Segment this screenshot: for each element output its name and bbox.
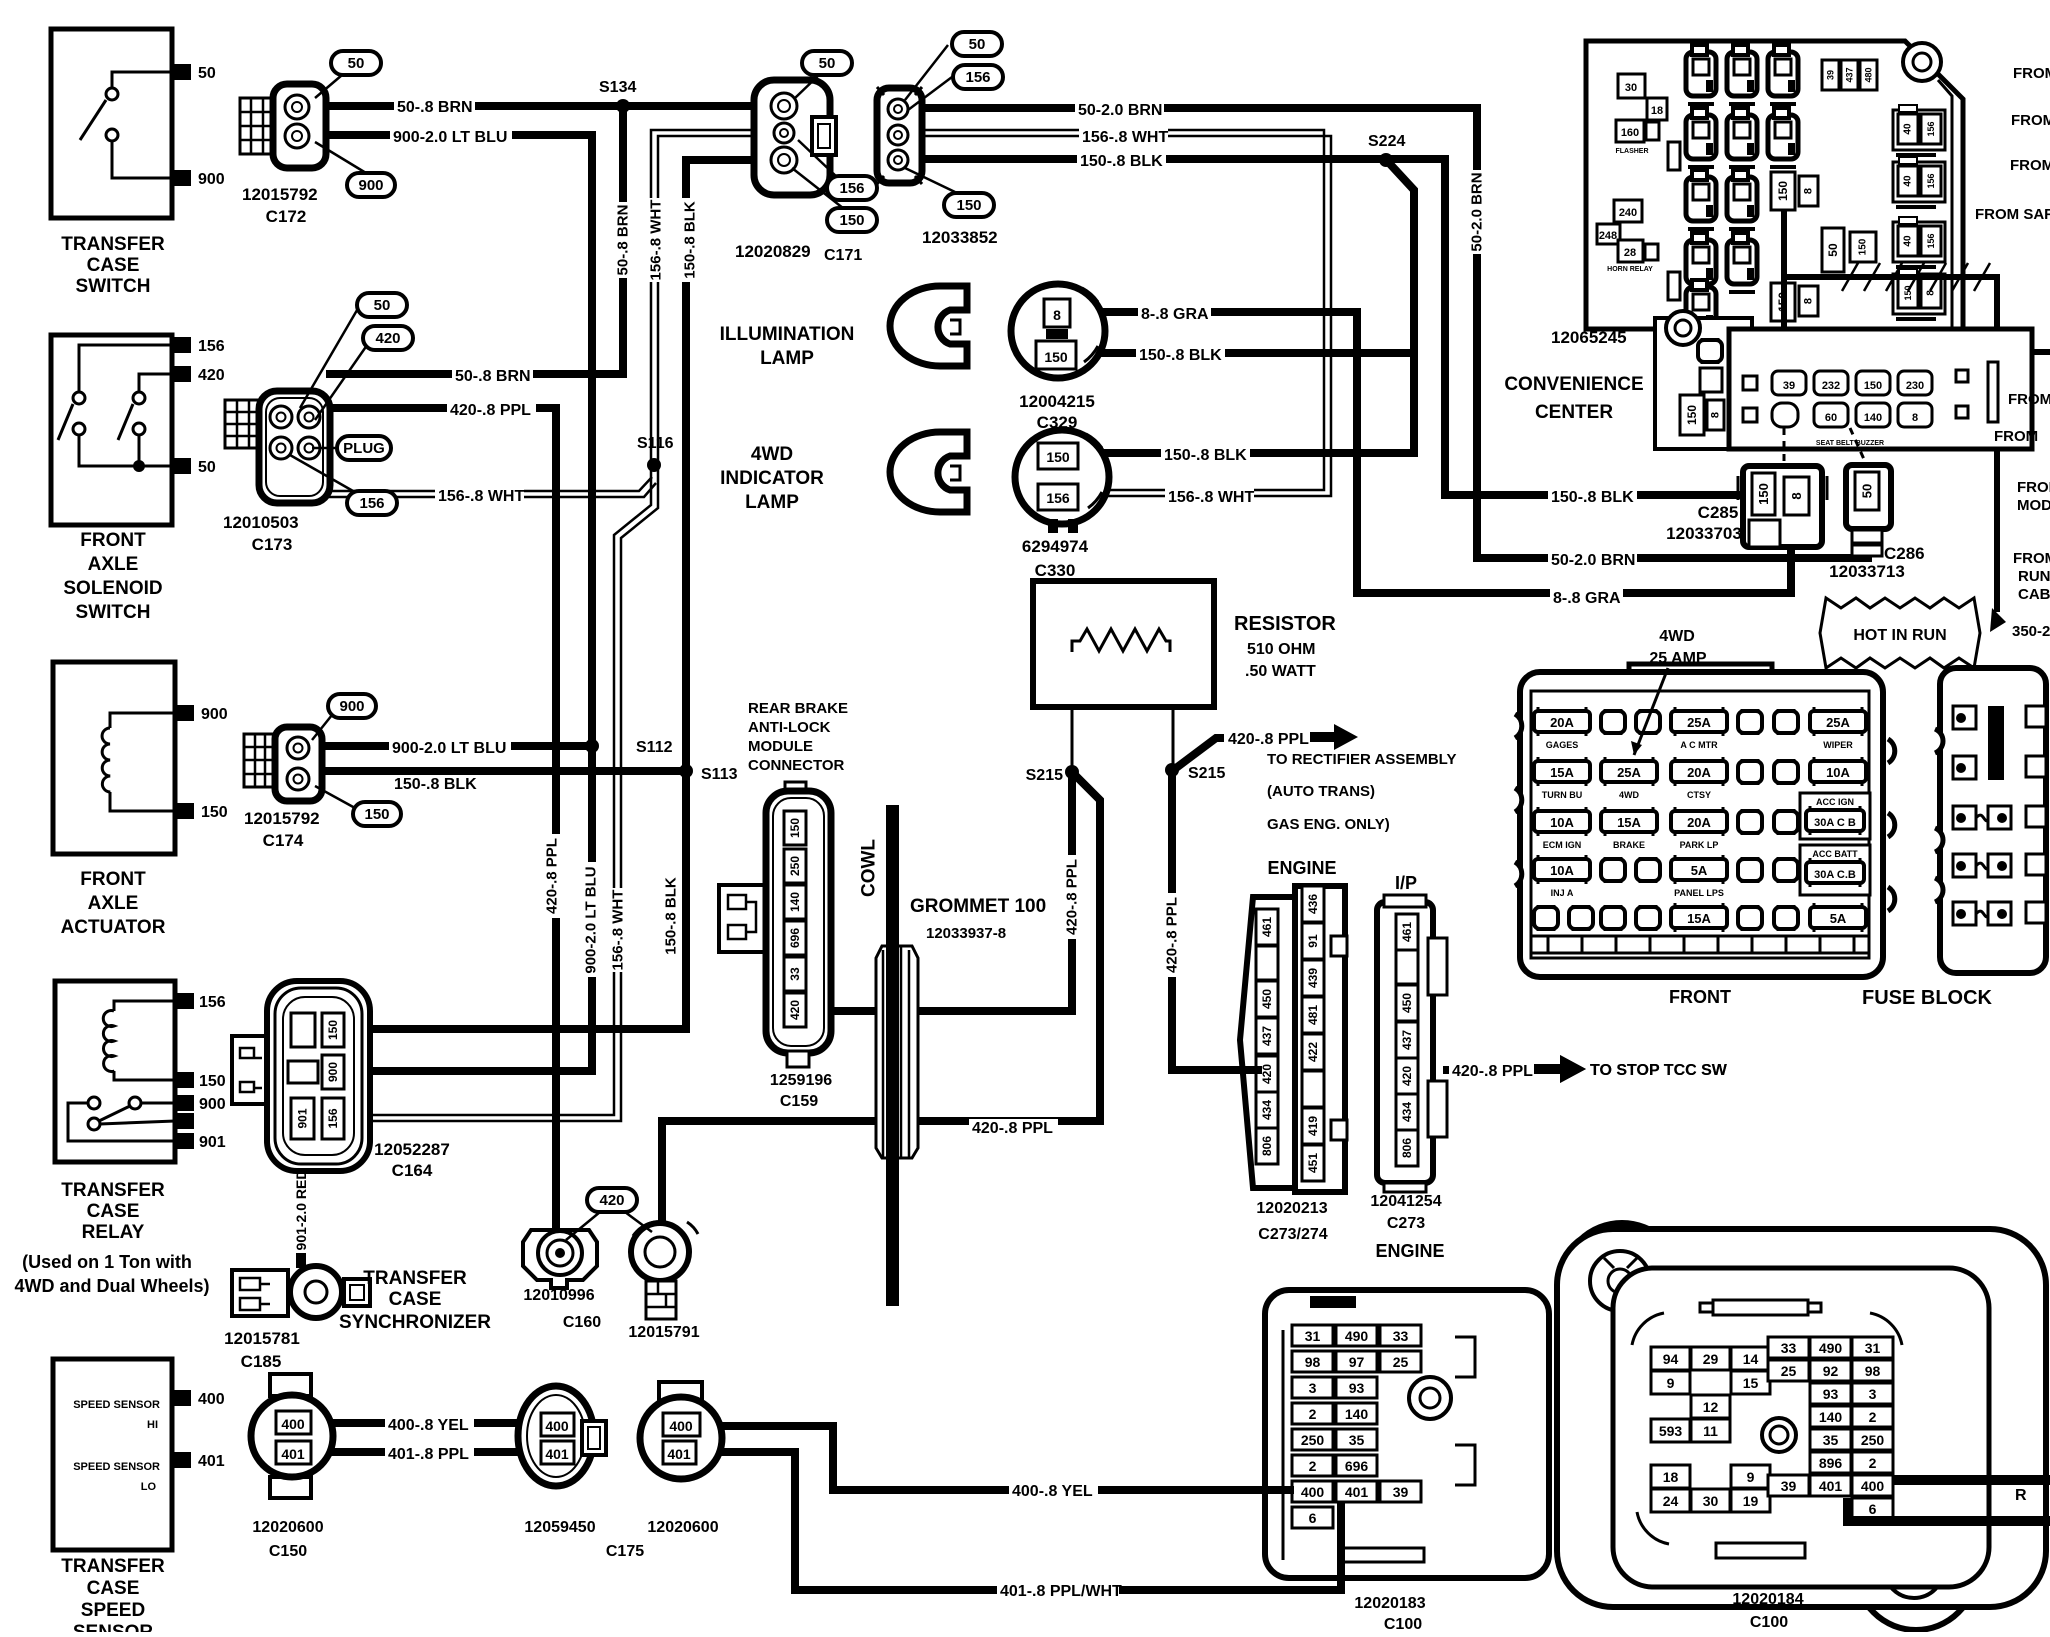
pin 437 — [1841, 60, 1858, 90]
wire 400 into I/P C100 — [1893, 1475, 2050, 1485]
pin 156 — [1921, 166, 1941, 196]
fuse block side connector (right) — [1940, 668, 2046, 973]
pin cell 33 — [1768, 1337, 1809, 1358]
pin cell 94 — [1651, 1347, 1690, 1370]
pin cell 896 — [1810, 1452, 1851, 1473]
pin 8 — [1799, 286, 1818, 316]
svg-text:437: 437 — [1400, 1030, 1414, 1050]
svg-text:900: 900 — [199, 1096, 226, 1113]
svg-text:A C MTR: A C MTR — [1680, 740, 1718, 750]
svg-text:5A: 5A — [1830, 911, 1847, 926]
wire label 50-2.0 BRN (vertical) — [1468, 170, 1485, 254]
circuit tag oval 150 — [944, 193, 994, 217]
circuit tag oval 156 — [953, 65, 1003, 89]
wire 401-.8 PPL/WHT to ENGINE C100 — [694, 1452, 1341, 1590]
resistor 510 ohm — [1033, 581, 1214, 707]
wire 420-.8 PPL S215 right branch — [1172, 775, 1258, 1070]
svg-text:451: 451 — [1306, 1153, 1320, 1173]
svg-text:18: 18 — [1651, 105, 1663, 117]
terminal 156 — [172, 337, 191, 353]
pin 140 — [784, 885, 806, 919]
svg-text:15: 15 — [1743, 1375, 1759, 1391]
pin 150 — [322, 1013, 344, 1047]
svg-text:C164: C164 — [392, 1161, 433, 1180]
svg-text:SYNCHRONIZER: SYNCHRONIZER — [339, 1312, 491, 1333]
svg-text:250: 250 — [788, 856, 802, 876]
svg-text:TO STOP TCC SW: TO STOP TCC SW — [1590, 1062, 1728, 1079]
svg-text:400: 400 — [198, 1391, 225, 1408]
svg-text:401: 401 — [281, 1446, 305, 1462]
ip mount keyhole bottom — [1884, 1538, 1944, 1598]
svg-text:PARK LP: PARK LP — [1680, 840, 1719, 850]
svg-text:156: 156 — [965, 69, 990, 86]
svg-text:31: 31 — [1865, 1340, 1881, 1356]
circuit tag oval 420 — [587, 1188, 637, 1212]
svg-text:MOD: MOD — [2017, 497, 2050, 514]
wire label 150-.8 BLK (vertical) — [662, 874, 679, 958]
circuit tag oval 156 — [347, 491, 397, 515]
pin cell 140 — [1810, 1406, 1851, 1427]
svg-text:156: 156 — [1926, 233, 1936, 248]
convenience center bus wire to 350 circuit — [1781, 209, 1787, 338]
svg-text:900-2.0 LT BLU: 900-2.0 LT BLU — [393, 129, 507, 146]
svg-text:896: 896 — [1819, 1455, 1843, 1471]
svg-text:FROM: FROM — [2011, 112, 2050, 129]
svg-text:12010996: 12010996 — [523, 1287, 594, 1304]
pin 439 — [1302, 960, 1324, 996]
pin cell 696 — [1336, 1455, 1377, 1476]
svg-text:461: 461 — [1260, 917, 1274, 937]
svg-text:401: 401 — [1345, 1484, 1369, 1500]
wire label 420-.8 PPL — [1225, 730, 1314, 748]
wire 420 into engine strip — [1240, 1066, 1262, 1074]
svg-text:436: 436 — [1306, 894, 1320, 914]
pin cell 3 — [1852, 1383, 1893, 1404]
pin 450 — [1256, 981, 1278, 1017]
connector 12015791 — [631, 1223, 689, 1281]
svg-text:CASE: CASE — [87, 255, 140, 276]
svg-text:2: 2 — [1309, 1406, 1317, 1422]
svg-text:232: 232 — [1822, 380, 1840, 392]
svg-text:50: 50 — [1826, 243, 1840, 257]
node S224 — [1379, 153, 1393, 167]
connector 12059450 — [518, 1386, 594, 1486]
svg-text:SOLENOID: SOLENOID — [63, 578, 162, 599]
svg-text:28: 28 — [1624, 247, 1636, 259]
svg-text:10A: 10A — [1826, 765, 1850, 780]
pin cell 490 — [1336, 1325, 1377, 1346]
svg-text:150: 150 — [1903, 285, 1913, 300]
svg-text:806: 806 — [1400, 1138, 1414, 1158]
svg-text:12020213: 12020213 — [1256, 1200, 1327, 1217]
pin 39 — [1822, 60, 1839, 90]
circuit tag oval PLUG — [337, 436, 391, 460]
svg-text:400: 400 — [281, 1416, 305, 1432]
wire label 400-.8 YEL — [385, 1416, 474, 1434]
svg-text:419: 419 — [1306, 1116, 1320, 1136]
svg-text:SPEED: SPEED — [81, 1600, 145, 1621]
wire label 420-.8 PPL (vertical) — [1064, 855, 1081, 939]
svg-text:696: 696 — [1345, 1458, 1369, 1474]
svg-text:420-.8 PPL: 420-.8 PPL — [450, 402, 531, 419]
svg-text:25: 25 — [1393, 1354, 1409, 1370]
pin cell 24 — [1651, 1489, 1690, 1512]
pin cell 400 — [1292, 1481, 1333, 1502]
pin cell 18 — [1651, 1465, 1690, 1488]
svg-text:8: 8 — [1789, 492, 1804, 499]
wire label 8-.8 GRA — [1550, 589, 1623, 607]
svg-text:450: 450 — [1400, 993, 1414, 1013]
wire label 900-2.0 LT BLU — [390, 128, 512, 146]
svg-text:GAS ENG. ONLY): GAS ENG. ONLY) — [1267, 816, 1390, 833]
svg-text:C330: C330 — [1035, 561, 1076, 580]
svg-text:150: 150 — [956, 197, 981, 214]
svg-text:FUSE BLOCK: FUSE BLOCK — [1862, 987, 1993, 1009]
svg-text:8: 8 — [1803, 188, 1815, 194]
svg-text:490: 490 — [1819, 1340, 1843, 1356]
wire 401-.8 PPL — [310, 1448, 545, 1456]
pin 436 — [1302, 886, 1324, 922]
pin cell 35 — [1810, 1429, 1851, 1450]
svg-text:RESISTOR: RESISTOR — [1234, 613, 1336, 635]
hot in run starburst — [1820, 598, 1980, 668]
svg-text:S112: S112 — [636, 739, 673, 756]
pin 437 — [1256, 1018, 1278, 1054]
svg-text:R: R — [2015, 1487, 2027, 1504]
svg-text:C159: C159 — [780, 1093, 818, 1110]
pin 150 — [1752, 473, 1775, 515]
lamp socket C330 6294974 — [1015, 430, 1109, 524]
svg-text:150: 150 — [1685, 405, 1699, 425]
svg-text:150: 150 — [1776, 181, 1790, 201]
wire label 150-.8 BLK — [1161, 446, 1250, 464]
svg-text:14: 14 — [1743, 1351, 1759, 1367]
pin cell 25 — [1768, 1360, 1809, 1381]
svg-text:806: 806 — [1260, 1136, 1274, 1156]
svg-text:SWITCH: SWITCH — [76, 602, 151, 623]
svg-text:4WD: 4WD — [1619, 790, 1640, 800]
circuit tag oval 150 — [353, 802, 401, 826]
svg-text:900-2.0 LT BLU: 900-2.0 LT BLU — [392, 740, 506, 757]
svg-text:AXLE: AXLE — [88, 893, 139, 914]
wire label 900-2.0 LT BLU (vertical) — [582, 862, 599, 977]
circuit tag oval 150 — [827, 208, 877, 232]
arrow to rectifier assembly — [1310, 724, 1358, 750]
svg-text:12059450: 12059450 — [524, 1519, 595, 1536]
svg-text:50: 50 — [374, 297, 391, 314]
svg-text:401: 401 — [1819, 1478, 1843, 1494]
svg-text:400-.8 YEL: 400-.8 YEL — [1012, 1483, 1093, 1500]
svg-text:S224: S224 — [1368, 133, 1405, 150]
pin 451 — [1302, 1145, 1324, 1181]
svg-text:92: 92 — [1823, 1363, 1839, 1379]
svg-text:400-.8 YEL: 400-.8 YEL — [388, 1417, 469, 1434]
svg-text:CASE: CASE — [87, 1201, 140, 1222]
terminal 401 — [172, 1452, 191, 1468]
svg-text:30A C.B: 30A C.B — [1814, 869, 1856, 881]
svg-text:12020183: 12020183 — [1354, 1595, 1425, 1612]
svg-text:30: 30 — [1703, 1493, 1719, 1509]
wire label 150-.8 BLK — [391, 775, 480, 793]
svg-text:LAMP: LAMP — [745, 492, 799, 513]
svg-text:SPEED SENSOR: SPEED SENSOR — [73, 1399, 160, 1411]
svg-text:450: 450 — [1260, 989, 1274, 1009]
svg-text:12065245: 12065245 — [1551, 328, 1627, 347]
pin 8 — [1784, 477, 1809, 515]
pin 8 — [1799, 176, 1818, 206]
svg-text:140: 140 — [788, 892, 802, 912]
svg-text:150: 150 — [199, 1073, 226, 1090]
svg-text:20A: 20A — [1550, 715, 1574, 730]
svg-text:12020600: 12020600 — [647, 1519, 718, 1536]
svg-text:10A: 10A — [1550, 815, 1574, 830]
pin 150 — [1771, 172, 1795, 210]
pin 40 — [1898, 166, 1918, 196]
svg-text:(Used on 1 Ton with: (Used on 1 Ton with — [22, 1252, 192, 1272]
pin cell 12 — [1691, 1395, 1730, 1418]
oval tag 420 synchronizer — [566, 1212, 652, 1240]
svg-text:98: 98 — [1305, 1354, 1321, 1370]
svg-text:400: 400 — [545, 1418, 569, 1434]
svg-text:11: 11 — [1703, 1423, 1718, 1439]
pin cell 39 — [1768, 1475, 1809, 1496]
ip top tab — [1713, 1300, 1808, 1315]
12065245 bracket — [1655, 318, 1752, 449]
circuit tag oval 50 — [357, 293, 407, 317]
pin cell 98 — [1292, 1351, 1333, 1372]
svg-text:437: 437 — [1260, 1026, 1274, 1046]
wire 400-.8 YEL to ENGINE C100 — [698, 1426, 1292, 1490]
circuit tag oval 156 — [827, 176, 877, 200]
svg-text:401: 401 — [667, 1446, 691, 1462]
pin cell 9 — [1731, 1465, 1770, 1488]
svg-text:420-.8 PPL: 420-.8 PPL — [1064, 859, 1081, 935]
wire 150-.8 BLK C329 — [1076, 349, 1414, 357]
svg-text:93: 93 — [1349, 1380, 1365, 1396]
svg-text:35: 35 — [1349, 1432, 1365, 1448]
svg-text:8-.8 GRA: 8-.8 GRA — [1553, 590, 1621, 607]
svg-text:C173: C173 — [252, 535, 293, 554]
svg-text:SWITCH: SWITCH — [76, 276, 151, 297]
svg-text:ENGINE: ENGINE — [1267, 858, 1336, 878]
svg-text:33: 33 — [1781, 1340, 1797, 1356]
wire label 420-.8 PPL — [447, 401, 536, 419]
circuit tag oval 900 — [347, 173, 395, 197]
svg-text:C160: C160 — [563, 1314, 601, 1331]
svg-text:901-2.0 RED: 901-2.0 RED — [293, 1170, 309, 1251]
wire label 50-.8 BRN (vertical) — [614, 202, 631, 278]
svg-text:901: 901 — [199, 1134, 226, 1151]
wire label 401-.8 PPL — [385, 1445, 474, 1463]
terminal 150 — [175, 1072, 194, 1088]
circuit tag oval 420 — [363, 326, 413, 350]
svg-text:140: 140 — [1819, 1409, 1843, 1425]
svg-text:156-.8 WHT: 156-.8 WHT — [438, 488, 524, 505]
connector C173 12010503 — [225, 400, 261, 448]
convenience center screw — [1903, 43, 1941, 81]
svg-text:S134: S134 — [599, 79, 636, 96]
svg-text:20A: 20A — [1687, 815, 1711, 830]
svg-text:420: 420 — [198, 367, 225, 384]
pin 481 — [1302, 997, 1324, 1033]
pin 806 — [1256, 1128, 1278, 1164]
pin cell 2 — [1292, 1403, 1333, 1424]
svg-text:TRANSFER: TRANSFER — [61, 234, 165, 255]
svg-text:LAMP: LAMP — [760, 348, 814, 369]
svg-text:4WD: 4WD — [751, 444, 793, 465]
svg-text:3: 3 — [1869, 1386, 1877, 1402]
terminal 901 — [175, 1133, 194, 1149]
wire label 50-.8 BRN — [394, 98, 475, 116]
pin 8 — [1707, 400, 1724, 430]
svg-text:8: 8 — [1710, 412, 1722, 418]
svg-text:HOT IN RUN: HOT IN RUN — [1853, 627, 1946, 644]
svg-text:401: 401 — [198, 1453, 225, 1470]
svg-text:60: 60 — [1825, 412, 1837, 424]
wire 420 out of ip strip to stop tcc — [1443, 1066, 1540, 1074]
svg-text:900: 900 — [326, 1062, 340, 1082]
svg-text:C171: C171 — [824, 247, 862, 264]
pin cell 92 — [1810, 1360, 1851, 1381]
circuit tag oval 50 — [331, 51, 381, 75]
svg-text:420-.8 PPL: 420-.8 PPL — [1164, 897, 1181, 973]
wire 50-.8 BRN — [313, 102, 770, 110]
pin cell 35 — [1336, 1429, 1377, 1450]
pin 50 — [1855, 472, 1879, 510]
pin 420 — [784, 993, 806, 1027]
svg-text:156: 156 — [1046, 490, 1070, 506]
pin 150 — [1850, 232, 1876, 262]
connector C150 12020600 — [270, 1374, 311, 1396]
pin cell 2 — [1852, 1452, 1893, 1473]
node S215 left — [1065, 765, 1079, 779]
svg-text:420-.8 PPL: 420-.8 PPL — [1452, 1063, 1533, 1080]
wire label 156-.8 WHT (vertical) — [648, 198, 665, 282]
svg-text:12020184: 12020184 — [1732, 1591, 1803, 1608]
svg-text:40: 40 — [1903, 235, 1914, 247]
pin 437 — [1396, 1022, 1418, 1058]
svg-text:434: 434 — [1260, 1100, 1274, 1120]
svg-text:12033713: 12033713 — [1829, 562, 1905, 581]
svg-text:12015781: 12015781 — [224, 1329, 300, 1348]
node S113 — [679, 764, 693, 778]
svg-text:150: 150 — [1046, 449, 1070, 465]
wire 901-2.0 RED — [296, 1135, 306, 1268]
svg-text:93: 93 — [1823, 1386, 1839, 1402]
svg-text:C273/274: C273/274 — [1258, 1226, 1327, 1243]
svg-text:C100: C100 — [1750, 1614, 1788, 1631]
svg-text:50-2.0 BRN: 50-2.0 BRN — [1469, 172, 1486, 251]
wire label 156-.8 WHT (vertical) — [610, 888, 627, 972]
wire 400 into I/P C100 — [1892, 1475, 2050, 1485]
svg-text:CAB: CAB — [2018, 586, 2050, 603]
wire label 401-.8 PPL/WHT — [997, 1582, 1119, 1600]
svg-text:SEAT BELT BUZZER: SEAT BELT BUZZER — [1816, 440, 1884, 447]
svg-text:S116: S116 — [637, 435, 674, 452]
pin cell 140 — [1336, 1403, 1377, 1424]
front axle actuator box — [53, 662, 175, 854]
svg-text:12: 12 — [1703, 1399, 1719, 1415]
wire label 156-.8 WHT — [1165, 488, 1254, 506]
svg-text:.50 WATT: .50 WATT — [1245, 663, 1316, 680]
pin 696 — [784, 921, 806, 955]
connector C286 12033713 — [1846, 465, 1891, 529]
pin cell 14 — [1731, 1347, 1770, 1370]
wire 156-.8 WHT right — [918, 130, 1324, 490]
svg-text:S215: S215 — [1026, 767, 1063, 784]
pin 40 — [1898, 226, 1918, 256]
pin 156 — [1921, 226, 1941, 256]
terminal 150 — [175, 803, 194, 819]
svg-text:6294974: 6294974 — [1022, 537, 1089, 556]
svg-text:4WD: 4WD — [1659, 628, 1695, 645]
svg-text:150-.8 BLK: 150-.8 BLK — [682, 201, 699, 279]
svg-text:39: 39 — [1781, 1478, 1797, 1494]
svg-text:AXLE: AXLE — [88, 554, 139, 575]
svg-text:150: 150 — [1858, 238, 1869, 255]
svg-text:150-.8 BLK: 150-.8 BLK — [1551, 489, 1634, 506]
svg-text:ECM IGN: ECM IGN — [1543, 840, 1582, 850]
svg-text:439: 439 — [1306, 968, 1320, 988]
svg-text:C150: C150 — [269, 1543, 307, 1560]
svg-text:COWL: COWL — [859, 839, 880, 897]
pin cell 6 — [1292, 1507, 1333, 1528]
convenience center outer box — [1586, 41, 1963, 329]
svg-text:12041254: 12041254 — [1370, 1193, 1441, 1210]
svg-text:97: 97 — [1349, 1354, 1365, 1370]
wire label 8-.8 GRA — [1138, 305, 1211, 323]
svg-text:25 AMP: 25 AMP — [1649, 650, 1707, 667]
svg-text:248: 248 — [1599, 230, 1617, 242]
svg-text:150-.8 BLK: 150-.8 BLK — [1139, 347, 1222, 364]
wire 401 into I/P C100 — [1848, 1498, 2050, 1521]
svg-text:150-.8 BLK: 150-.8 BLK — [663, 877, 680, 955]
svg-text:437: 437 — [1845, 67, 1855, 82]
svg-text:30A C B: 30A C B — [1814, 817, 1856, 829]
fuse block bottom rail — [1531, 936, 1869, 953]
svg-text:94: 94 — [1663, 1351, 1679, 1367]
ip mount keyhole top — [1590, 1251, 1650, 1311]
pin cell 31 — [1852, 1337, 1893, 1358]
circuit tag oval 900 — [328, 694, 376, 718]
svg-text:50-2.0 BRN: 50-2.0 BRN — [1551, 552, 1635, 569]
wire 420 resistor legs — [1071, 640, 1074, 770]
pin 901 — [291, 1098, 314, 1139]
svg-text:RELAY: RELAY — [82, 1222, 145, 1243]
svg-text:420: 420 — [599, 1192, 624, 1209]
wire label 150-.8 BLK (vertical) — [682, 198, 699, 282]
terminal 900 — [175, 1095, 194, 1111]
pin cell 401 — [1336, 1481, 1377, 1502]
connector 12020184 C100 ip bulkhead — [1562, 1223, 1682, 1343]
svg-text:461: 461 — [1400, 922, 1414, 942]
pin cell 25 — [1380, 1351, 1421, 1372]
svg-text:6: 6 — [1869, 1501, 1877, 1517]
svg-text:39: 39 — [1783, 380, 1795, 392]
wire 401 into I/P C100 — [1848, 1498, 2050, 1521]
fuse block fuses row4 — [1538, 855, 1586, 884]
svg-text:10A: 10A — [1550, 863, 1574, 878]
svg-text:C273: C273 — [1387, 1215, 1425, 1232]
pin 420 — [1396, 1058, 1418, 1094]
svg-text:8: 8 — [1053, 307, 1061, 323]
svg-text:8: 8 — [1803, 298, 1815, 304]
svg-text:CONVENIENCE: CONVENIENCE — [1504, 374, 1643, 395]
ip inner arcs — [1632, 1313, 1902, 1544]
connector C185 12015781 — [232, 1270, 288, 1316]
transfer case speed sensor box — [53, 1359, 172, 1550]
svg-text:FROM SAF: FROM SAF — [1975, 206, 2050, 223]
